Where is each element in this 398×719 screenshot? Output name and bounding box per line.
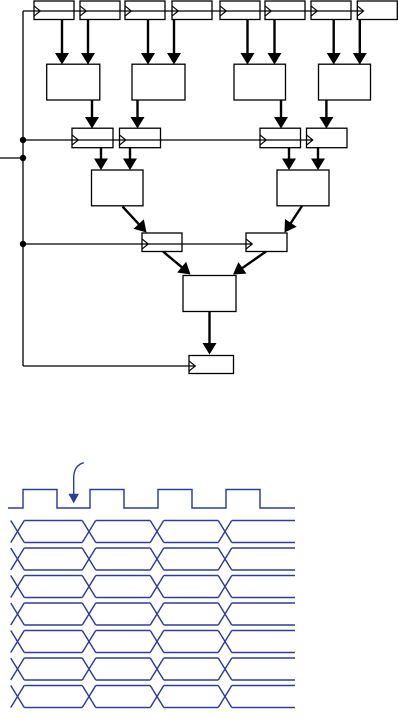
wire: clock row-5 horizontal [23,243,252,245]
wire: clock trunk vertical [22,11,24,366]
data bus lane 6 waveform [11,658,295,680]
arrow adder U2 to register [131,101,145,129]
data bus lane 3 waveform [11,576,295,598]
register R5 (input stage) [220,1,260,20]
register R14 (stage-2 pipeline) [246,233,287,252]
register R8 (input stage) [357,1,397,20]
arrow R8 output to adder [353,20,367,65]
adder U3 (stage 1) [234,64,286,100]
arrow R3 output to adder [141,20,155,65]
data bus lane 1 waveform [11,521,295,543]
register R10 (stage-1 pipeline) [120,128,161,148]
data bus lane 7 waveform [11,686,295,708]
wire: clock input stub from left edge [0,157,23,159]
arrow adder U4 to register [319,101,333,129]
register R3 (input stage) [125,1,165,20]
data bus lane 5 waveform [11,631,295,653]
adder U6 (stage 2 right) [277,170,329,206]
register R13 (stage-2 pipeline) [142,233,182,252]
arrow register R12 to adder [311,148,325,171]
register R1 (input stage) [34,1,74,20]
data bus lane 4 waveform [11,603,295,625]
arrow adder U3 to register [274,101,288,129]
arrow R2 output to adder [81,20,95,65]
junction dot at clock input stub [20,155,26,161]
register R6 (input stage) [265,1,305,20]
arrow adder U1 to register [85,101,99,129]
register R11 (stage-1 pipeline) [260,128,301,148]
arrow R6 output to adder [268,20,282,65]
arrow register R14 to adder U7 [229,252,266,281]
wire: clock row-1 horizontal (through R1-R7 to R8 clock pin) [23,10,364,12]
clock waveform clk [8,490,295,509]
adder U1 (stage 1) [47,64,100,100]
wire: clock row-3 horizontal [23,139,313,141]
data bus lane 2 waveform [11,548,295,570]
register R4 (input stage) [172,1,212,20]
arrow register R11 to adder [282,148,296,171]
register R7 (input stage) [311,1,351,20]
arrow register R9 to adder [94,148,108,171]
register R9 (stage-1 pipeline) [72,128,113,148]
adder U4 (stage 1) [319,64,371,100]
register R12 (stage-1 pipeline) [307,128,348,148]
register R2 (input stage) [80,1,120,20]
arrow R4 output to adder [167,20,181,65]
register R15 (output) [189,356,234,374]
adder U7 (final stage) [183,276,236,312]
arrow adder U5 to register R13 [123,207,152,238]
arrow R5 output to adder [241,20,255,65]
adder U5 (stage 2 left) [92,170,144,206]
arrow adder U7 to output register [203,312,217,355]
junction dot at clock/row-3 branch [20,137,26,143]
adder U2 (stage 1) [132,64,185,100]
wire: clock row-7 horizontal to output register [23,365,195,367]
arrow R1 output to adder [55,20,69,65]
arrow register R13 to adder U7 [163,252,195,280]
arrow R7 output to adder [327,20,341,65]
arrow register R10 to adder [123,148,137,171]
junction dot at clock/row-5 branch [20,241,26,247]
arrow adder U6 to register R14 [279,206,302,236]
annotation arrow pointing at clock low phase [68,463,83,504]
